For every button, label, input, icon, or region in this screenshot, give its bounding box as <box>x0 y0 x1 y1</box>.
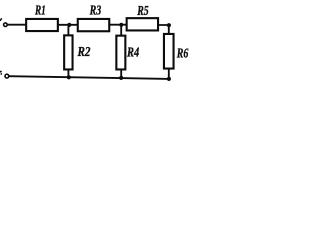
node C (junction dot top-right corner) <box>167 23 171 27</box>
svg-text:R5: R5 <box>137 4 149 19</box>
resistor R3 (box) <box>78 19 110 31</box>
wire: R1 to R3 <box>59 24 77 26</box>
terminal T1 (top-left input) <box>4 23 8 27</box>
svg-text:R3: R3 <box>89 4 101 19</box>
terminal T2 (bottom-left input) <box>5 74 9 78</box>
svg-text:R2: R2 <box>77 45 91 60</box>
svg-text:R4: R4 <box>126 45 139 60</box>
svg-text:R1: R1 <box>34 3 45 18</box>
resistor R5 (box) <box>127 18 158 30</box>
wire: terminal T1 to R1 left <box>7 24 25 26</box>
wire: node B down to R4 top <box>120 25 122 36</box>
stray scan mark (left edge, top) <box>0 18 2 21</box>
wire: R5 to node C corner <box>159 25 169 34</box>
resistor R6 (box) <box>164 34 174 69</box>
node B (junction dot R3/R5/R4) <box>119 23 123 27</box>
resistor R1 (box) <box>26 19 58 31</box>
wire: R2 bottom to bottom rail <box>67 70 69 78</box>
node A (junction dot R1/R3/R2) <box>67 23 71 27</box>
wire: R3 to R5 <box>110 24 126 26</box>
resistor R4 (box) <box>116 36 125 70</box>
wire: R6 bottom to bottom rail <box>168 69 170 79</box>
wire: node A down to R2 top <box>67 25 69 35</box>
node C' (junction dot bottom rail below R6) <box>167 77 171 81</box>
svg-text:R6: R6 <box>176 47 188 62</box>
wire: R4 bottom to bottom rail <box>120 70 122 78</box>
node B' (junction dot bottom rail below R4) <box>119 76 123 80</box>
resistor R2 (box) <box>64 35 72 69</box>
wire: bottom rail (terminal T2 to below R6) <box>9 76 169 79</box>
stray scan mark (left edge, bottom) <box>0 71 2 73</box>
node A' (junction dot bottom rail below R2) <box>67 75 71 79</box>
